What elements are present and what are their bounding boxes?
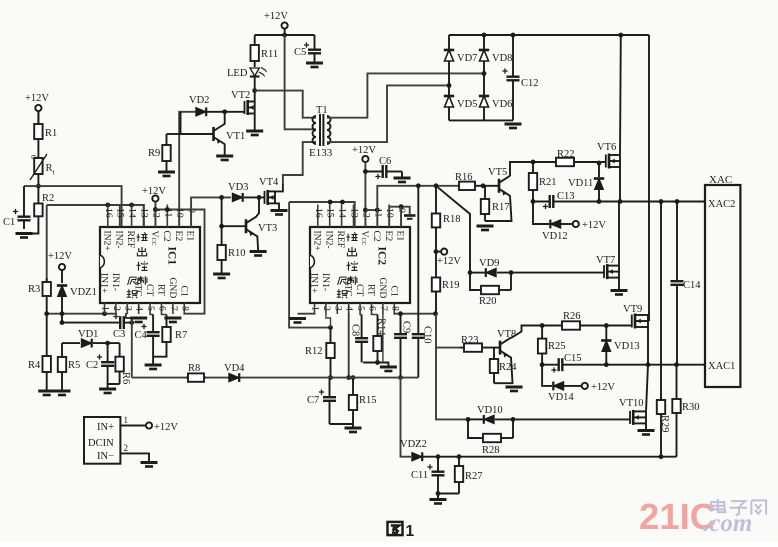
resistor R26: [536, 311, 630, 330]
wire IC2 pin1 gnd link: [298, 312, 315, 315]
resistor R16: [455, 172, 483, 190]
wire feedback net to IC2: [289, 202, 355, 227]
svg-text:C10: C10: [422, 326, 433, 344]
wire IC2 pin9 stub: [400, 207, 402, 227]
op-amp U IC2 (TL494): [309, 205, 411, 315]
wire VT3 emitter: [256, 236, 259, 251]
node bus R18: [434, 183, 439, 188]
label +12V IC2: [352, 145, 376, 156]
wire VD11 anode: [598, 190, 600, 202]
wire VT7 drain: [618, 202, 620, 266]
svg-text:2: 2: [111, 306, 122, 311]
wire column to VD10: [436, 348, 468, 420]
svg-text:R26: R26: [563, 311, 581, 322]
node VD9 right: [509, 270, 514, 275]
svg-text:R6: R6: [120, 372, 131, 384]
zener VDZ1: [57, 286, 97, 299]
wire T1 secondary bottom lead: [327, 85, 449, 142]
wire R29 column: [660, 202, 662, 401]
zener VD13: [601, 341, 640, 353]
wire +12V to pin12: [154, 202, 156, 227]
svg-text:VDZ1: VDZ1: [70, 287, 97, 298]
wire VT9 source: [647, 327, 649, 365]
terminal +12V VD14: [582, 383, 588, 389]
wire VD8 column: [483, 35, 485, 120]
svg-text:+12V: +12V: [48, 251, 72, 262]
svg-text:R17: R17: [492, 202, 510, 213]
node bus C10: [416, 183, 421, 188]
ground C7/R15: [345, 428, 362, 432]
transistor VT6: [606, 154, 620, 169]
svg-text:VD6: VD6: [492, 99, 512, 110]
svg-text:IN1-: IN1-: [320, 273, 331, 291]
svg-text:RT: RT: [156, 284, 167, 296]
ground VT4: [271, 211, 288, 215]
wire VDZ1 bottom: [61, 297, 63, 323]
node W2 pin16: [105, 203, 110, 208]
node XAC1 rail: [646, 362, 651, 367]
wire IC2 pin4 to DTC rail: [348, 313, 350, 378]
wire T1 primary bottom lead: [283, 142, 316, 184]
node XAC2 R29: [659, 199, 664, 204]
svg-text:E1: E1: [185, 231, 196, 242]
svg-text:VT1: VT1: [226, 131, 245, 142]
capacitor C12: [502, 35, 538, 120]
transistor VT10: [630, 410, 646, 425]
wire VT6 source: [619, 167, 621, 202]
wire VT9 gate lead: [630, 325, 632, 327]
ground R4: [38, 391, 55, 395]
svg-text:R16: R16: [455, 172, 473, 183]
wire pins12-11-C1 wrap: [155, 210, 204, 314]
node top bus VT6: [618, 33, 623, 38]
label +12V IC1: [142, 186, 166, 197]
resistor R17: [481, 186, 510, 221]
svg-text:VT10: VT10: [619, 398, 644, 409]
wire VD1 net: [62, 342, 80, 344]
svg-text:IN2+: IN2+: [101, 231, 112, 251]
capacitor C7: [307, 378, 336, 424]
svg-text:IN+: IN+: [97, 422, 114, 433]
wire R1 feed: [37, 111, 39, 124]
capacitor C15: [542, 353, 581, 373]
wire pin3 jog: [126, 313, 132, 323]
wire XAC1 net: [575, 364, 705, 366]
svg-text:C1: C1: [388, 286, 399, 297]
label DCIN pin1: [124, 415, 129, 425]
wire VD13 bottom: [605, 352, 607, 365]
label VT2: [231, 90, 250, 101]
resistor R24: [490, 348, 517, 374]
wire R9 top: [167, 133, 181, 135]
node XAC1 VD13: [604, 362, 609, 367]
svg-text:8: 8: [389, 306, 400, 311]
label VT5: [488, 167, 507, 178]
wire VD12 to +12V: [561, 223, 573, 225]
node fb pin14: [340, 200, 345, 205]
ground VT2: [246, 131, 263, 135]
svg-text:16: 16: [103, 208, 114, 218]
terminal +12V top-left: [35, 105, 41, 111]
svg-text:VD12: VD12: [542, 231, 568, 242]
resistor R4: [28, 314, 51, 391]
node R22 R21: [531, 160, 536, 165]
svg-text:VD1: VD1: [78, 329, 98, 340]
wire +12V top rail: [284, 29, 286, 35]
svg-text:1: 1: [124, 415, 129, 425]
node VT1 collector: [222, 109, 227, 114]
wire +12V tap: [436, 251, 441, 253]
svg-text:VT6: VT6: [597, 142, 616, 153]
node VT3 collector: [257, 195, 262, 200]
wire C6 ground lead: [401, 172, 403, 178]
resistor R27: [455, 457, 483, 494]
svg-text:R7: R7: [175, 330, 187, 341]
svg-text:+12V: +12V: [352, 145, 376, 156]
label VT4: [259, 177, 279, 188]
diode VD3: [228, 182, 248, 202]
ground C6: [394, 178, 411, 182]
wire DCIN pin1: [120, 425, 145, 427]
wire +V rail: [648, 35, 650, 321]
transistor VT2: [245, 100, 255, 115]
node IC2 pin11 tie: [375, 208, 380, 213]
capacitor C3: [62, 314, 132, 340]
transistor VT3: [246, 216, 257, 236]
wire +12V to IC2 pin12: [364, 162, 366, 227]
svg-text:R14: R14: [376, 318, 387, 336]
svg-text:4: 4: [134, 306, 145, 311]
wire pin5 jog to C4: [150, 313, 153, 315]
node R26 R25: [540, 323, 545, 328]
svg-text:VT4: VT4: [259, 177, 279, 188]
wire VD14 branch: [542, 365, 552, 386]
svg-text:VDZ2: VDZ2: [400, 439, 427, 450]
svg-text:IC2: IC2: [376, 247, 388, 266]
resistor R28: [479, 434, 513, 456]
node B VDZ1-R5: [60, 320, 65, 325]
svg-text:R23: R23: [461, 335, 479, 346]
svg-text:RT: RT: [366, 284, 377, 296]
connector XAC box: [705, 174, 740, 387]
svg-text:T1: T1: [316, 105, 328, 116]
svg-text:C12: C12: [521, 78, 539, 89]
svg-text:R25: R25: [548, 341, 566, 352]
svg-text:C13: C13: [557, 191, 575, 202]
svg-text:E2: E2: [173, 231, 184, 242]
wire R24 gnd: [493, 374, 495, 383]
svg-text:R22: R22: [557, 149, 575, 160]
capacitor C9: [394, 314, 412, 378]
terminal +12V VDZ1: [59, 264, 65, 270]
svg-text:15: 15: [115, 208, 126, 218]
label +12V DCIN: [154, 422, 178, 433]
wire R30 bottom leg: [676, 425, 678, 457]
svg-text:6: 6: [367, 306, 378, 311]
ground VT8/R24: [506, 387, 523, 391]
svg-text:R10: R10: [228, 248, 246, 259]
svg-text:VD9: VD9: [479, 258, 499, 269]
svg-text:VT9: VT9: [623, 304, 642, 315]
capacitor C2: [86, 343, 114, 384]
wire R7 to C4 node: [153, 352, 166, 364]
wire VD1 to C2/R6: [93, 342, 120, 344]
svg-text:C9: C9: [401, 321, 412, 333]
wire VD13 top: [605, 326, 607, 341]
node fb pin15: [328, 200, 333, 205]
wire E1 column to VD3: [191, 197, 231, 227]
wire VT7 source: [618, 278, 620, 289]
svg-text:R3: R3: [28, 284, 40, 295]
svg-text:C3: C3: [113, 329, 125, 340]
wire VT5 collector: [510, 162, 524, 176]
wire VT2 rail: [254, 91, 256, 102]
terminal +12V top-mid: [282, 22, 288, 28]
svg-text:R15: R15: [359, 395, 377, 406]
ground IC2 E1E2: [404, 216, 416, 219]
node XAC1 C14: [674, 362, 679, 367]
svg-text:IN2-: IN2-: [113, 231, 124, 249]
svg-text:7: 7: [168, 306, 179, 311]
wire T1 center tap: [285, 35, 316, 129]
transformer T1: [309, 105, 333, 159]
svg-text:C2: C2: [161, 231, 172, 242]
resistor R8: [186, 363, 206, 382]
wire VT3 base link: [222, 197, 246, 226]
svg-text:IN1+: IN1+: [99, 273, 110, 293]
watermark: [639, 496, 766, 537]
capacitor C11: [411, 457, 445, 494]
wire VT1 base node: [181, 112, 214, 134]
svg-text:+12V: +12V: [591, 382, 615, 393]
node bus VD8: [482, 33, 487, 38]
svg-text:VD8: VD8: [492, 53, 512, 64]
resistor R22: [524, 149, 599, 166]
svg-text:CT: CT: [354, 284, 365, 296]
wire diagonal to VD9 net: [436, 186, 470, 273]
resistor R1: [34, 111, 57, 145]
thermistor Rt: [29, 145, 55, 186]
wire VT1 collector: [224, 112, 226, 125]
wire VD2 to VT2 gate: [207, 111, 245, 113]
label +12V R18col: [437, 256, 461, 267]
node pin8net R19: [433, 311, 438, 316]
svg-text:IC1: IC1: [166, 247, 178, 266]
svg-text:C2: C2: [371, 231, 382, 242]
wire E2 column to VD2: [179, 112, 196, 227]
wire VD10 left lead: [468, 418, 484, 420]
wire bridge top bus: [449, 34, 649, 36]
node W2 pin14: [129, 203, 134, 208]
connector DCIN box: [84, 417, 120, 464]
svg-text:+12V: +12V: [437, 256, 461, 267]
svg-text:XAC: XAC: [709, 174, 732, 186]
ground IC2 pin1: [289, 319, 306, 323]
resistor R19: [432, 252, 460, 314]
capacitor C10: [412, 186, 433, 378]
capacitor C6: [365, 156, 402, 179]
svg-text:R19: R19: [442, 280, 460, 291]
node VD8-VD6 mid: [482, 71, 487, 76]
svg-text:IN1+: IN1+: [309, 273, 320, 293]
svg-text:E2: E2: [383, 231, 394, 242]
node XAC2 C14: [675, 199, 680, 204]
svg-text:VD3: VD3: [228, 182, 248, 193]
wire pin6 jog to R14: [372, 313, 378, 315]
wire VT5 emitter: [485, 196, 512, 222]
svg-text:GND: GND: [377, 278, 388, 299]
node VD7-VD5 mid: [447, 83, 452, 88]
wire R19 column down: [436, 314, 460, 348]
terminal +12V IC2: [362, 156, 368, 162]
svg-text:C2: C2: [86, 360, 98, 371]
svg-text:E1: E1: [395, 231, 406, 242]
wire VT6 drain: [619, 35, 622, 155]
wire VT2 source: [254, 114, 256, 131]
svg-text:VT5: VT5: [488, 167, 507, 178]
node DTC pin4: [346, 375, 351, 380]
wire VT4 source: [275, 203, 279, 209]
node A VDZ1: [60, 311, 65, 316]
resistor R11: [251, 35, 279, 62]
ground VT10: [638, 431, 655, 435]
resistor R5: [58, 343, 80, 391]
svg-text:C4: C4: [135, 330, 148, 341]
svg-text:C1: C1: [3, 217, 15, 228]
node R26 VD13: [604, 323, 609, 328]
wire DTC rail: [132, 377, 419, 379]
svg-text:R24: R24: [499, 362, 517, 373]
label +12V top-left: [25, 93, 49, 104]
wire DCIN pin2: [120, 453, 149, 461]
wire VD11 column: [598, 163, 600, 177]
wire VT8 collector: [511, 326, 536, 339]
svg-text:5: 5: [355, 306, 366, 311]
wire bridge bottom bus: [449, 119, 513, 121]
svg-text:2: 2: [124, 443, 129, 453]
wire VD3 to VT4 gate: [244, 196, 265, 198]
node R18 +12V: [434, 249, 439, 254]
terminal +12V IC1: [152, 195, 158, 201]
svg-text:CT: CT: [144, 284, 155, 296]
svg-text:2: 2: [321, 306, 332, 311]
svg-text:.com: .com: [703, 510, 752, 537]
capacitor C14: [671, 202, 702, 365]
wire IC2 pin7 gnd: [382, 313, 384, 363]
wire C3 node to DTC rail: [131, 323, 133, 378]
ground DCIN: [141, 463, 158, 467]
svg-text:VD4: VD4: [224, 363, 245, 374]
node bus VT5base: [481, 183, 486, 188]
wire pin6 jog to R7: [162, 313, 167, 315]
resistor R2: [34, 186, 54, 216]
wire R6 to C2 gnd: [108, 384, 120, 388]
ground R9: [158, 172, 175, 176]
svg-text:IN2-: IN2-: [323, 231, 334, 249]
svg-text:C14: C14: [683, 280, 701, 291]
node Rt/R2 junction: [36, 184, 41, 189]
wire bottom net: [423, 456, 677, 458]
resistor R7: [162, 315, 187, 353]
node XAC2 VD11: [597, 199, 602, 204]
svg-text:LED: LED: [227, 68, 248, 79]
resistor R15: [349, 378, 377, 424]
svg-text:XAC1: XAC1: [708, 361, 735, 372]
svg-text:R29: R29: [659, 415, 670, 433]
wire IC2 pin8 net: [394, 312, 435, 315]
svg-text:+12V: +12V: [264, 11, 288, 22]
svg-text:8: 8: [179, 306, 190, 311]
svg-text:R27: R27: [465, 471, 483, 482]
node pin11 tie: [165, 207, 170, 212]
diode VD8: [479, 50, 513, 64]
label +12V VD12: [582, 220, 606, 231]
LED indicator: [227, 62, 267, 91]
diode VD2: [189, 95, 209, 116]
wire R28 right leg: [512, 419, 514, 438]
svg-text:VT7: VT7: [596, 255, 615, 266]
svg-text:DCIN: DCIN: [88, 438, 114, 449]
transistor VT9: [632, 314, 648, 329]
label +12V VD14: [591, 382, 615, 393]
diode VD14: [548, 382, 574, 404]
svg-text:VD14: VD14: [548, 392, 574, 403]
label VT6: [597, 142, 616, 153]
node E1 tie: [399, 204, 404, 209]
label +12V top-mid: [264, 11, 288, 22]
node pin12 tie: [153, 207, 158, 212]
svg-text:R20: R20: [479, 296, 497, 307]
svg-text:VD11: VD11: [568, 178, 593, 189]
svg-text:E133: E133: [309, 147, 333, 159]
wire XAC2 net: [560, 201, 705, 203]
resistor R14: [373, 315, 386, 364]
node DTC R12: [328, 375, 333, 380]
wire VD9 right: [497, 272, 604, 274]
ground VT1: [216, 156, 233, 160]
svg-text:13: 13: [139, 208, 150, 218]
node VT6 gate: [597, 161, 602, 166]
svg-text:VD13: VD13: [614, 341, 640, 352]
node DTC R15: [351, 375, 356, 380]
svg-text:C1: C1: [178, 286, 189, 297]
node B pin3: [129, 320, 134, 325]
svg-text:IN1-: IN1-: [110, 273, 121, 291]
zener VD11: [568, 178, 604, 190]
wire R2 ground link: [24, 216, 38, 233]
ground VT3: [250, 252, 267, 256]
ground IC1 pin4: [130, 318, 147, 322]
resistor R10: [217, 226, 245, 273]
node LED/VT2: [252, 88, 257, 93]
svg-text:C8: C8: [350, 324, 361, 336]
ground C1: [16, 234, 33, 238]
node XAC2 VT6/VT7: [618, 199, 623, 204]
wire T1 secondary top lead: [327, 73, 484, 117]
node VD1 C2: [105, 341, 110, 346]
svg-text:REF: REF: [335, 231, 346, 249]
wire IC2 pin11 to bus: [377, 186, 459, 227]
diode VD4: [224, 363, 245, 382]
ground C12: [505, 124, 522, 128]
op-amp U IC1 (TL494): [99, 205, 201, 315]
resistor R25: [538, 326, 566, 365]
label +12V VDZ1: [48, 251, 72, 262]
node A R3: [44, 311, 49, 316]
wire VD14 to +12V: [564, 385, 582, 387]
svg-text:R30: R30: [682, 402, 700, 413]
wire net A to IC1 pin1: [47, 312, 116, 315]
